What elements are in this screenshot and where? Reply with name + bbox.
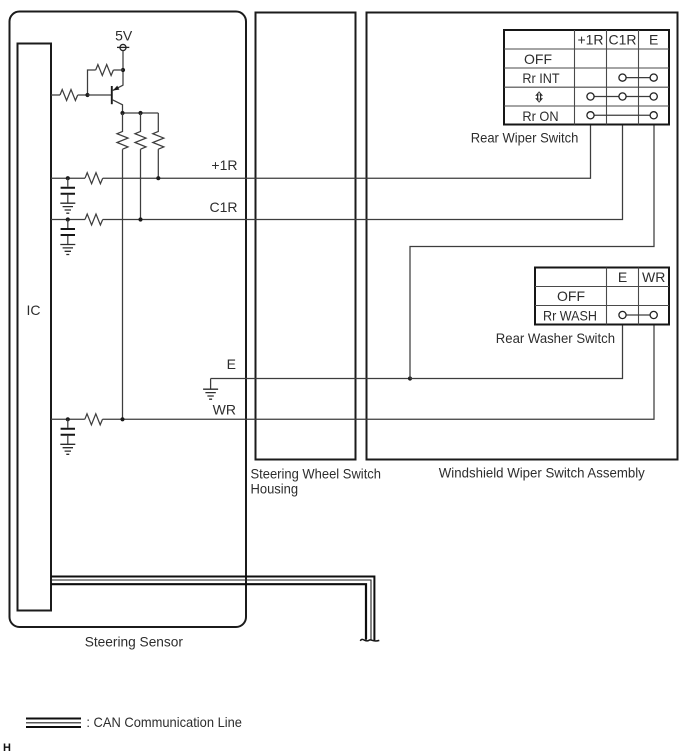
node: WR pull-up junction	[120, 417, 124, 421]
svg-text:Rr WASH: Rr WASH	[543, 307, 597, 323]
wire R4 to C1R line	[140, 149, 142, 219]
resistor R7 (C1R series)	[85, 214, 103, 225]
node: +1R capacitor junction	[66, 176, 70, 180]
contact line Rr WASH row	[623, 314, 654, 316]
CAN bus line bottom (thick)	[51, 584, 366, 640]
node: +1R pull-up junction	[156, 176, 160, 180]
resistor R3 (pull-up to WR)	[117, 113, 128, 149]
wire E tee to rear washer switch	[410, 325, 623, 379]
node: base junction	[85, 93, 89, 97]
windshield wiper switch assembly box	[367, 13, 678, 460]
node: C1R capacitor junction	[66, 217, 70, 221]
wire R3 to WR line	[122, 149, 124, 419]
5V terminal circle	[120, 44, 126, 50]
transistor Q1 collector lead	[112, 100, 123, 113]
wire feedback resistor to 5V node	[113, 69, 123, 71]
wire 5V to emitter node	[122, 51, 124, 86]
wire R5 to +1R line	[157, 149, 159, 178]
capacitor C1 (+1R)	[61, 178, 75, 203]
resistor R2 (feedback)	[96, 65, 114, 76]
ground (C1)	[60, 203, 75, 213]
svg-text:C1R: C1R	[209, 199, 237, 215]
wire E ground to tee	[211, 378, 410, 380]
svg-text:E: E	[618, 269, 627, 285]
wire C1R to rear wiper switch	[103, 125, 623, 220]
wire E tee to rear wiper switch	[410, 125, 654, 379]
wire feedback loop left leg	[88, 70, 96, 95]
wire collector bus	[123, 112, 159, 114]
svg-text:Rr INT: Rr INT	[522, 70, 560, 86]
svg-text:Rear Wiper Switch: Rear Wiper Switch	[471, 129, 579, 145]
ground (E)	[203, 389, 218, 399]
svg-text:WR: WR	[213, 402, 236, 418]
CAN bus line top (thick)	[51, 577, 374, 641]
INT volume arrow symbol	[535, 91, 543, 102]
svg-text:Rear Washer Switch: Rear Washer Switch	[496, 330, 615, 346]
5V terminal strike line	[117, 46, 129, 48]
wire base node to transistor base	[88, 94, 112, 96]
contact circles Rr ON row	[587, 112, 594, 119]
wire IC to +1R resistor	[51, 177, 85, 179]
transistor Q1 base bar	[111, 86, 113, 104]
contact circles Rr INT row	[619, 74, 626, 81]
node: WR capacitor junction	[66, 417, 70, 421]
svg-text:H: H	[3, 742, 11, 754]
resistor R4 (pull-up to C1R)	[135, 113, 146, 149]
node: E tee junction	[408, 376, 412, 380]
svg-text:Steering Sensor: Steering Sensor	[85, 633, 184, 649]
svg-text:+1R: +1R	[211, 157, 237, 173]
svg-text:E: E	[227, 356, 236, 372]
contact circles Rr WASH row	[619, 311, 626, 318]
svg-text:5V: 5V	[115, 27, 133, 43]
capacitor C2 (C1R)	[61, 220, 75, 245]
contact circles INT volume row	[587, 93, 594, 100]
rear washer switch table grid	[535, 268, 669, 325]
svg-text:Housing: Housing	[251, 481, 299, 497]
capacitor C3 (WR)	[61, 419, 75, 444]
resistor R1 (base)	[60, 90, 78, 101]
steering sensor box	[10, 12, 247, 628]
svg-text:E: E	[649, 32, 658, 48]
contact line Rr ON row	[591, 114, 654, 116]
svg-text:C1R: C1R	[608, 32, 636, 48]
transistor Q1 emitter lead	[112, 85, 123, 91]
wire +1R to rear wiper switch	[103, 125, 591, 179]
svg-text:Steering Wheel Switch: Steering Wheel Switch	[251, 466, 382, 482]
IC box	[18, 44, 52, 611]
CAN bus line middle (thin)	[51, 580, 371, 640]
wire IC to C1R resistor	[51, 219, 85, 221]
node: bus middle	[138, 111, 142, 115]
resistor R6 (+1R series)	[85, 173, 103, 184]
resistor R8 (WR series)	[85, 414, 103, 425]
svg-text:Windshield Wiper Switch Assemb: Windshield Wiper Switch Assembly	[439, 465, 645, 481]
legend CAN line symbol	[26, 719, 81, 728]
ground stub (E)	[210, 379, 212, 390]
wire IC to base resistor	[51, 94, 60, 96]
svg-text:IC: IC	[27, 302, 41, 318]
ground (C3)	[60, 444, 75, 454]
svg-text:OFF: OFF	[557, 288, 585, 304]
contact line INT volume row	[591, 96, 654, 98]
node: feedback/5V junction	[121, 68, 125, 72]
ground (C2)	[60, 245, 75, 255]
contact line Rr INT row	[623, 77, 654, 79]
CAN bus break squiggle	[360, 639, 379, 641]
steering wheel switch housing box	[256, 13, 356, 460]
node: bus left	[120, 111, 124, 115]
transistor Q1 emitter arrow (PNP)	[113, 86, 120, 91]
svg-text:+1R: +1R	[577, 32, 603, 48]
svg-text:WR: WR	[642, 269, 665, 285]
node: C1R pull-up junction	[138, 217, 142, 221]
wire IC to WR resistor	[51, 418, 85, 420]
wire base resistor to base node	[78, 94, 88, 96]
rear wiper switch table grid	[504, 30, 669, 125]
svg-text:OFF: OFF	[524, 51, 552, 67]
wire WR to rear washer switch	[103, 325, 655, 419]
resistor R5 (pull-up to +1R)	[153, 113, 164, 149]
svg-text:Rr ON: Rr ON	[522, 108, 558, 124]
svg-text:: CAN Communication Line: : CAN Communication Line	[86, 714, 242, 730]
